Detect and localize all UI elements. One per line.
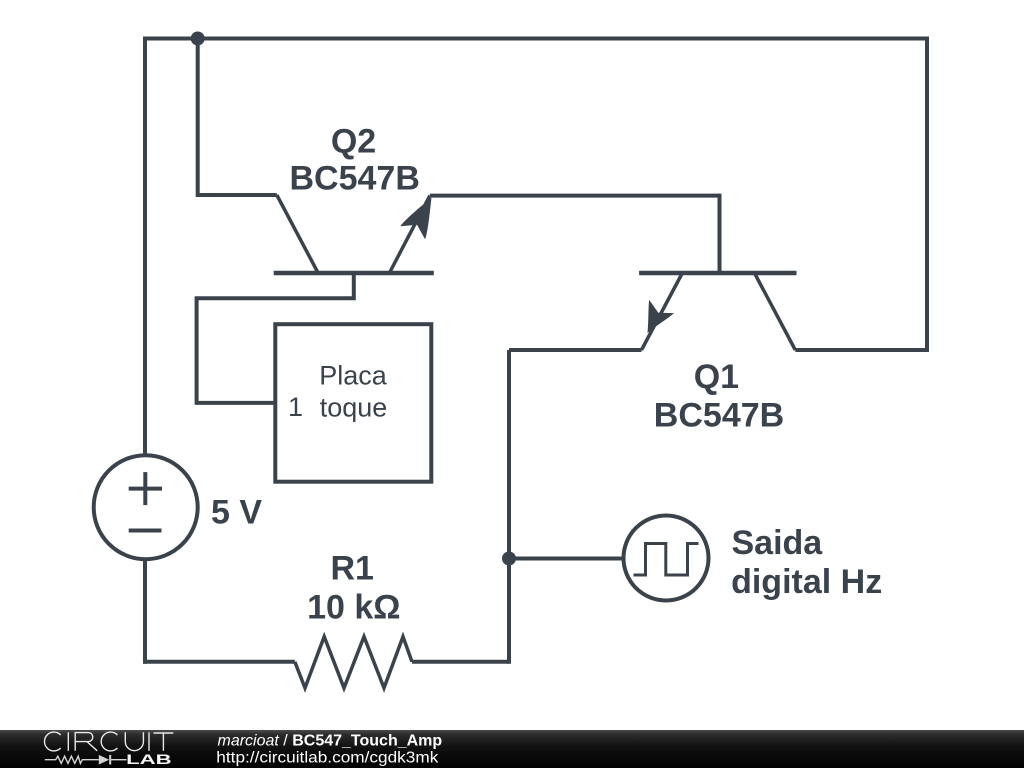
wire voltage source bottom: [143, 559, 147, 664]
transistor Q2: [274, 195, 434, 273]
label BC547B upper: [290, 160, 420, 198]
CircuitLab logo resistor-diode mark: [45, 755, 127, 765]
svg-text:5 V: 5 V: [211, 494, 262, 532]
label 10 kOhm: [307, 589, 400, 627]
wire Q1 base drop: [718, 194, 722, 273]
label Q1: [694, 358, 739, 396]
wire Q1 emitter left: [509, 348, 642, 352]
node junction dot lower: [502, 552, 516, 566]
wire bottom left: [143, 660, 295, 664]
label BC547B lower: [654, 396, 784, 434]
svg-text:R1: R1: [330, 549, 373, 587]
footer bar: [0, 730, 1024, 768]
svg-text:Q2: Q2: [331, 122, 376, 160]
touch plate box Placa toque: [275, 324, 431, 482]
label digital Hz: [731, 563, 882, 601]
wire bottom right: [412, 660, 509, 664]
svg-text:marcioat / BC547_Touch_Amp: marcioat / BC547_Touch_Amp: [218, 733, 443, 750]
wire Q2 base tap to touch plate: [197, 273, 354, 403]
svg-text:BC547B: BC547B: [290, 160, 420, 198]
svg-text:1: 1: [288, 392, 303, 422]
wire left rail: [143, 37, 147, 457]
wire Q2 emitter to Q1 base: [430, 194, 720, 198]
svg-text:Placa: Placa: [319, 361, 388, 391]
CircuitLab logo LAB: [126, 752, 172, 767]
node junction dot top: [191, 32, 205, 46]
label R1: [330, 549, 373, 587]
label Saida: [732, 524, 824, 562]
svg-text:10 kΩ: 10 kΩ: [307, 589, 400, 627]
label Q2: [331, 122, 376, 160]
wire right rail: [925, 37, 929, 351]
svg-text:LAB: LAB: [126, 752, 172, 767]
svg-text:Q1: Q1: [694, 358, 739, 396]
CircuitLab logo CIRCUIT: [45, 732, 174, 751]
function generator V2: [624, 516, 709, 601]
wire to function generator: [509, 557, 624, 561]
svg-text:toque: toque: [320, 392, 388, 422]
svg-text:http://circuitlab.com/cgdk3mk: http://circuitlab.com/cgdk3mk: [216, 750, 439, 767]
svg-text:Saida: Saida: [732, 524, 824, 562]
wire Q1 collector right: [795, 348, 929, 352]
label toque: [320, 392, 388, 422]
voltage source V1: [94, 455, 198, 559]
svg-text:BC547B: BC547B: [654, 396, 784, 434]
wire top rail: [145, 37, 927, 41]
footer credit line 1: [218, 733, 443, 750]
resistor R1: [295, 637, 412, 688]
label Placa: [319, 361, 388, 391]
wire riser to Q1 emitter: [507, 350, 511, 664]
transistor Q1: [639, 273, 796, 350]
wire junction drop to Q2 collector: [198, 39, 277, 196]
pin 1: [288, 392, 303, 422]
label 5 V: [211, 494, 262, 532]
svg-text:digital Hz: digital Hz: [731, 563, 882, 601]
footer credit line 2 url: [216, 750, 439, 767]
